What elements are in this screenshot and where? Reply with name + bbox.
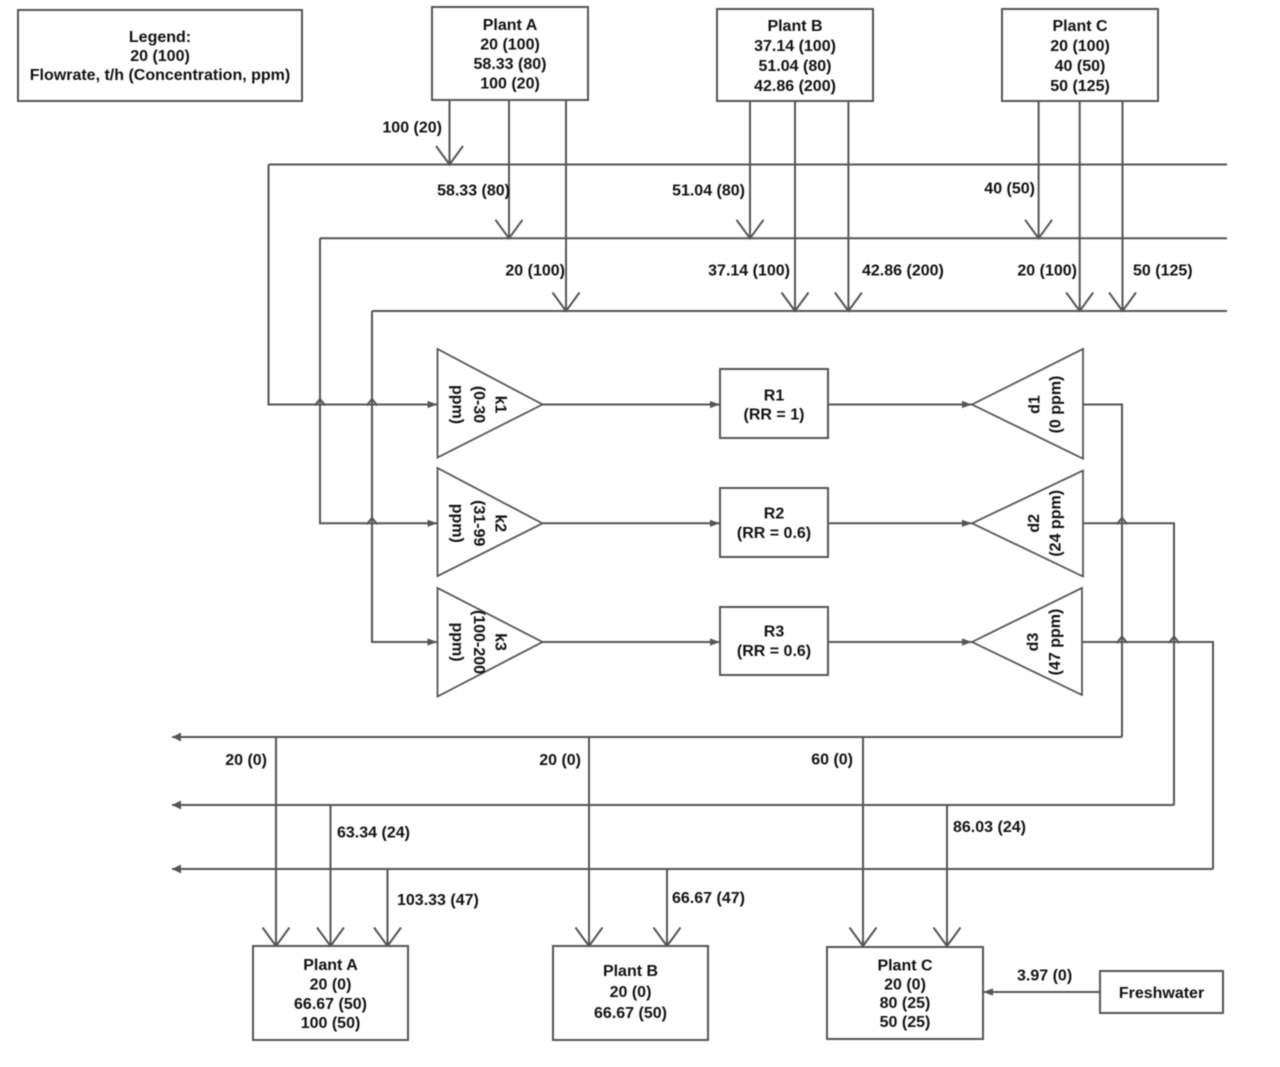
arrow Plant C stream 1 into bus 2 <box>1025 220 1052 239</box>
svg-text:20 (0): 20 (0) <box>884 976 926 993</box>
arrow Plant C stream 2 into bus 3 <box>1066 293 1093 312</box>
svg-text:66.67 (50): 66.67 (50) <box>294 996 367 1013</box>
svg-text:37.14 (100): 37.14 (100) <box>754 38 836 55</box>
hop d3 output over d2 drop <box>1169 637 1179 644</box>
wire Plant A stream 3 <box>565 100 567 311</box>
box Plant C (source) <box>1002 9 1158 101</box>
box Freshwater <box>1100 971 1223 1013</box>
svg-text:50 (25): 50 (25) <box>880 1014 931 1031</box>
svg-text:103.33 (47): 103.33 (47) <box>397 892 479 909</box>
arrow into Plant A 2 <box>317 928 344 947</box>
hop d2 output over d1 drop <box>1117 518 1127 525</box>
svg-text:Plant C: Plant C <box>877 958 933 975</box>
svg-text:3.97 (0): 3.97 (0) <box>1017 968 1072 985</box>
wire Plant B stream 3 <box>847 101 849 311</box>
wire return to Plant A (0 ppm) <box>275 737 277 946</box>
svg-text:ppm): ppm) <box>449 385 466 424</box>
svg-text:20 (0): 20 (0) <box>610 984 652 1001</box>
hop d3 output over d1 drop <box>1117 637 1127 644</box>
wire return to Plant B (47 ppm) <box>666 869 668 946</box>
svg-text:Flowrate, t/h (Concentration,: Flowrate, t/h (Concentration, ppm) <box>30 67 290 84</box>
collector k1 <box>438 349 543 458</box>
svg-text:20 (100): 20 (100) <box>505 263 565 280</box>
svg-text:100 (50): 100 (50) <box>301 1015 361 1032</box>
svg-text:d2: d2 <box>1026 514 1043 533</box>
svg-text:Freshwater: Freshwater <box>1119 985 1204 1002</box>
hop k2 feed over k3 drop <box>367 518 377 525</box>
arrow into R2 <box>710 520 720 527</box>
svg-text:50 (125): 50 (125) <box>1050 78 1110 95</box>
svg-text:(RR = 0.6): (RR = 0.6) <box>737 525 811 542</box>
wire feed bus1 to k1 <box>269 165 438 405</box>
wire R3 to d3 <box>828 641 972 643</box>
svg-text:80 (25): 80 (25) <box>880 995 931 1012</box>
svg-text:d1: d1 <box>1026 395 1043 414</box>
svg-text:Plant C: Plant C <box>1052 18 1108 35</box>
distributor d3 <box>972 588 1082 695</box>
wire return bus 1 (0 ppm) <box>172 736 1122 738</box>
arrow into k3 <box>428 638 438 645</box>
svg-text:86.03 (24): 86.03 (24) <box>953 819 1026 836</box>
svg-text:R2: R2 <box>764 505 785 522</box>
box Plant A (source) <box>432 7 588 100</box>
svg-text:k2: k2 <box>492 514 509 532</box>
arrow return bus 3 end <box>172 865 181 874</box>
hop k1 feed over k2 drop <box>315 399 325 406</box>
wire supply bus 2 <box>320 237 1227 239</box>
svg-text:66.67 (50): 66.67 (50) <box>594 1005 667 1022</box>
reactor R3 <box>720 607 828 675</box>
svg-text:k1: k1 <box>492 396 509 414</box>
svg-text:40 (50): 40 (50) <box>984 181 1035 198</box>
svg-text:(RR = 1): (RR = 1) <box>744 407 805 424</box>
wire feed bus2 to k2 <box>320 238 438 523</box>
wire Plant C stream 2 <box>1079 101 1081 311</box>
arrow into k1 <box>428 401 438 408</box>
svg-text:Plant B: Plant B <box>767 18 822 35</box>
arrow Plant A stream 2 into bus 2 <box>496 220 523 239</box>
wire return to Plant A (24 ppm) <box>330 805 332 946</box>
wire return bus 2 (24 ppm) <box>172 804 1174 806</box>
arrow Plant A stream 3 into bus 3 <box>553 293 580 312</box>
svg-text:20 (100): 20 (100) <box>130 48 190 65</box>
wire return to Plant C (24 ppm) <box>946 805 948 946</box>
box Plant B (source) <box>717 9 873 101</box>
wire supply bus 1 <box>269 164 1228 166</box>
svg-text:58.33 (80): 58.33 (80) <box>474 56 547 73</box>
arrow into Plant C 1 <box>850 928 877 947</box>
svg-text:Plant B: Plant B <box>603 963 658 980</box>
distributor d2 <box>972 471 1083 577</box>
wire d2 output <box>1083 523 1174 805</box>
arrow Plant B stream 2 into bus 3 <box>782 293 809 312</box>
arrow into d3 <box>962 638 972 645</box>
svg-text:60 (0): 60 (0) <box>811 752 853 769</box>
svg-text:ppm): ppm) <box>449 504 466 543</box>
wire freshwater to Plant C <box>983 991 1100 993</box>
arrow into R3 <box>710 638 720 645</box>
arrow into Plant A 1 <box>263 928 290 947</box>
collector k2 <box>438 468 543 576</box>
svg-text:100 (20): 100 (20) <box>480 76 540 93</box>
wire return to Plant C (0 ppm) <box>862 737 864 946</box>
reactor R1 <box>720 369 828 438</box>
svg-text:51.04 (80): 51.04 (80) <box>759 58 832 75</box>
box Plant B (sink) <box>553 946 708 1040</box>
svg-text:(0 ppm): (0 ppm) <box>1048 376 1065 434</box>
wire return to Plant A (47 ppm) <box>387 869 389 946</box>
wire return to Plant B (0 ppm) <box>588 737 590 946</box>
wire d1 output <box>1083 405 1122 738</box>
wire return bus 3 (47 ppm) <box>172 868 1213 870</box>
svg-text:(47 ppm): (47 ppm) <box>1047 609 1064 676</box>
svg-text:40 (50): 40 (50) <box>1055 58 1106 75</box>
svg-text:(100-200: (100-200 <box>470 610 487 674</box>
svg-text:R1: R1 <box>764 388 785 405</box>
svg-text:(31-99: (31-99 <box>470 500 487 546</box>
wire Plant A stream 2 <box>508 100 510 238</box>
svg-text:63.34 (24): 63.34 (24) <box>337 825 410 842</box>
svg-text:k3: k3 <box>492 633 509 651</box>
arrow return bus 2 end <box>172 801 181 810</box>
arrow into d1 <box>962 401 972 408</box>
arrow Plant A stream 1 into bus 1 <box>436 146 463 165</box>
wire k1 to R1 <box>543 404 721 406</box>
svg-text:(0-30: (0-30 <box>470 386 487 423</box>
svg-text:(RR = 0.6): (RR = 0.6) <box>737 643 811 660</box>
wire k3 to R3 <box>543 641 721 643</box>
wire Plant C stream 3 <box>1122 101 1124 311</box>
wire feed bus3 to k3 <box>372 311 438 642</box>
arrow into k2 <box>428 520 438 527</box>
svg-text:20 (0): 20 (0) <box>225 752 267 769</box>
svg-text:37.14 (100): 37.14 (100) <box>708 263 790 280</box>
svg-text:20 (0): 20 (0) <box>310 976 352 993</box>
arrow into Plant C 2 <box>934 928 961 947</box>
svg-text:Plant A: Plant A <box>303 957 358 974</box>
collector k3 <box>438 588 543 697</box>
reactor R2 <box>720 488 828 557</box>
wire Plant B stream 2 <box>794 101 796 311</box>
svg-text:100 (20): 100 (20) <box>382 120 442 137</box>
arrow Plant C stream 3 into bus 3 <box>1109 293 1136 312</box>
arrow return bus 1 end <box>172 733 181 742</box>
arrow into Plant B 2 <box>654 928 681 947</box>
distributor d1 <box>972 349 1083 459</box>
arrow Plant B stream 3 into bus 3 <box>835 293 862 312</box>
wire Plant C stream 1 <box>1038 101 1040 238</box>
wire Plant B stream 1 <box>749 101 751 238</box>
svg-text:R3: R3 <box>764 624 785 641</box>
box Plant C (sink) <box>827 947 983 1039</box>
arrow into R1 <box>710 401 720 408</box>
box Plant A (sink) <box>253 946 408 1040</box>
svg-text:42.86 (200): 42.86 (200) <box>754 78 836 95</box>
svg-text:20 (100): 20 (100) <box>480 37 540 54</box>
svg-text:51.04 (80): 51.04 (80) <box>672 183 745 200</box>
wire Plant A stream 1 <box>449 100 451 165</box>
svg-text:20 (100): 20 (100) <box>1017 263 1077 280</box>
svg-text:58.33 (80): 58.33 (80) <box>437 183 510 200</box>
legend box <box>18 10 302 101</box>
svg-text:20 (100): 20 (100) <box>1050 38 1110 55</box>
arrow into Plant A 3 <box>374 928 401 947</box>
arrow Plant B stream 1 into bus 2 <box>737 220 764 239</box>
arrow into Plant B 1 <box>576 928 603 947</box>
svg-text:20 (0): 20 (0) <box>539 752 581 769</box>
wire k2 to R2 <box>543 522 721 524</box>
svg-text:Legend:: Legend: <box>129 29 191 46</box>
svg-text:(24 ppm): (24 ppm) <box>1048 490 1065 557</box>
svg-text:ppm): ppm) <box>449 622 466 661</box>
wire R2 to d2 <box>828 522 972 524</box>
hop k1 feed over k3 drop <box>367 399 377 406</box>
arrow into d2 <box>962 520 972 527</box>
wire d3 output <box>1082 642 1213 869</box>
svg-text:42.86 (200): 42.86 (200) <box>862 263 944 280</box>
wire R1 to d1 <box>828 404 972 406</box>
svg-text:66.67 (47): 66.67 (47) <box>672 890 745 907</box>
arrow freshwater into Plant C <box>983 988 993 995</box>
svg-text:Plant A: Plant A <box>483 17 538 34</box>
wire supply bus 3 <box>372 310 1227 312</box>
svg-text:d3: d3 <box>1025 633 1042 652</box>
svg-text:50 (125): 50 (125) <box>1133 263 1193 280</box>
